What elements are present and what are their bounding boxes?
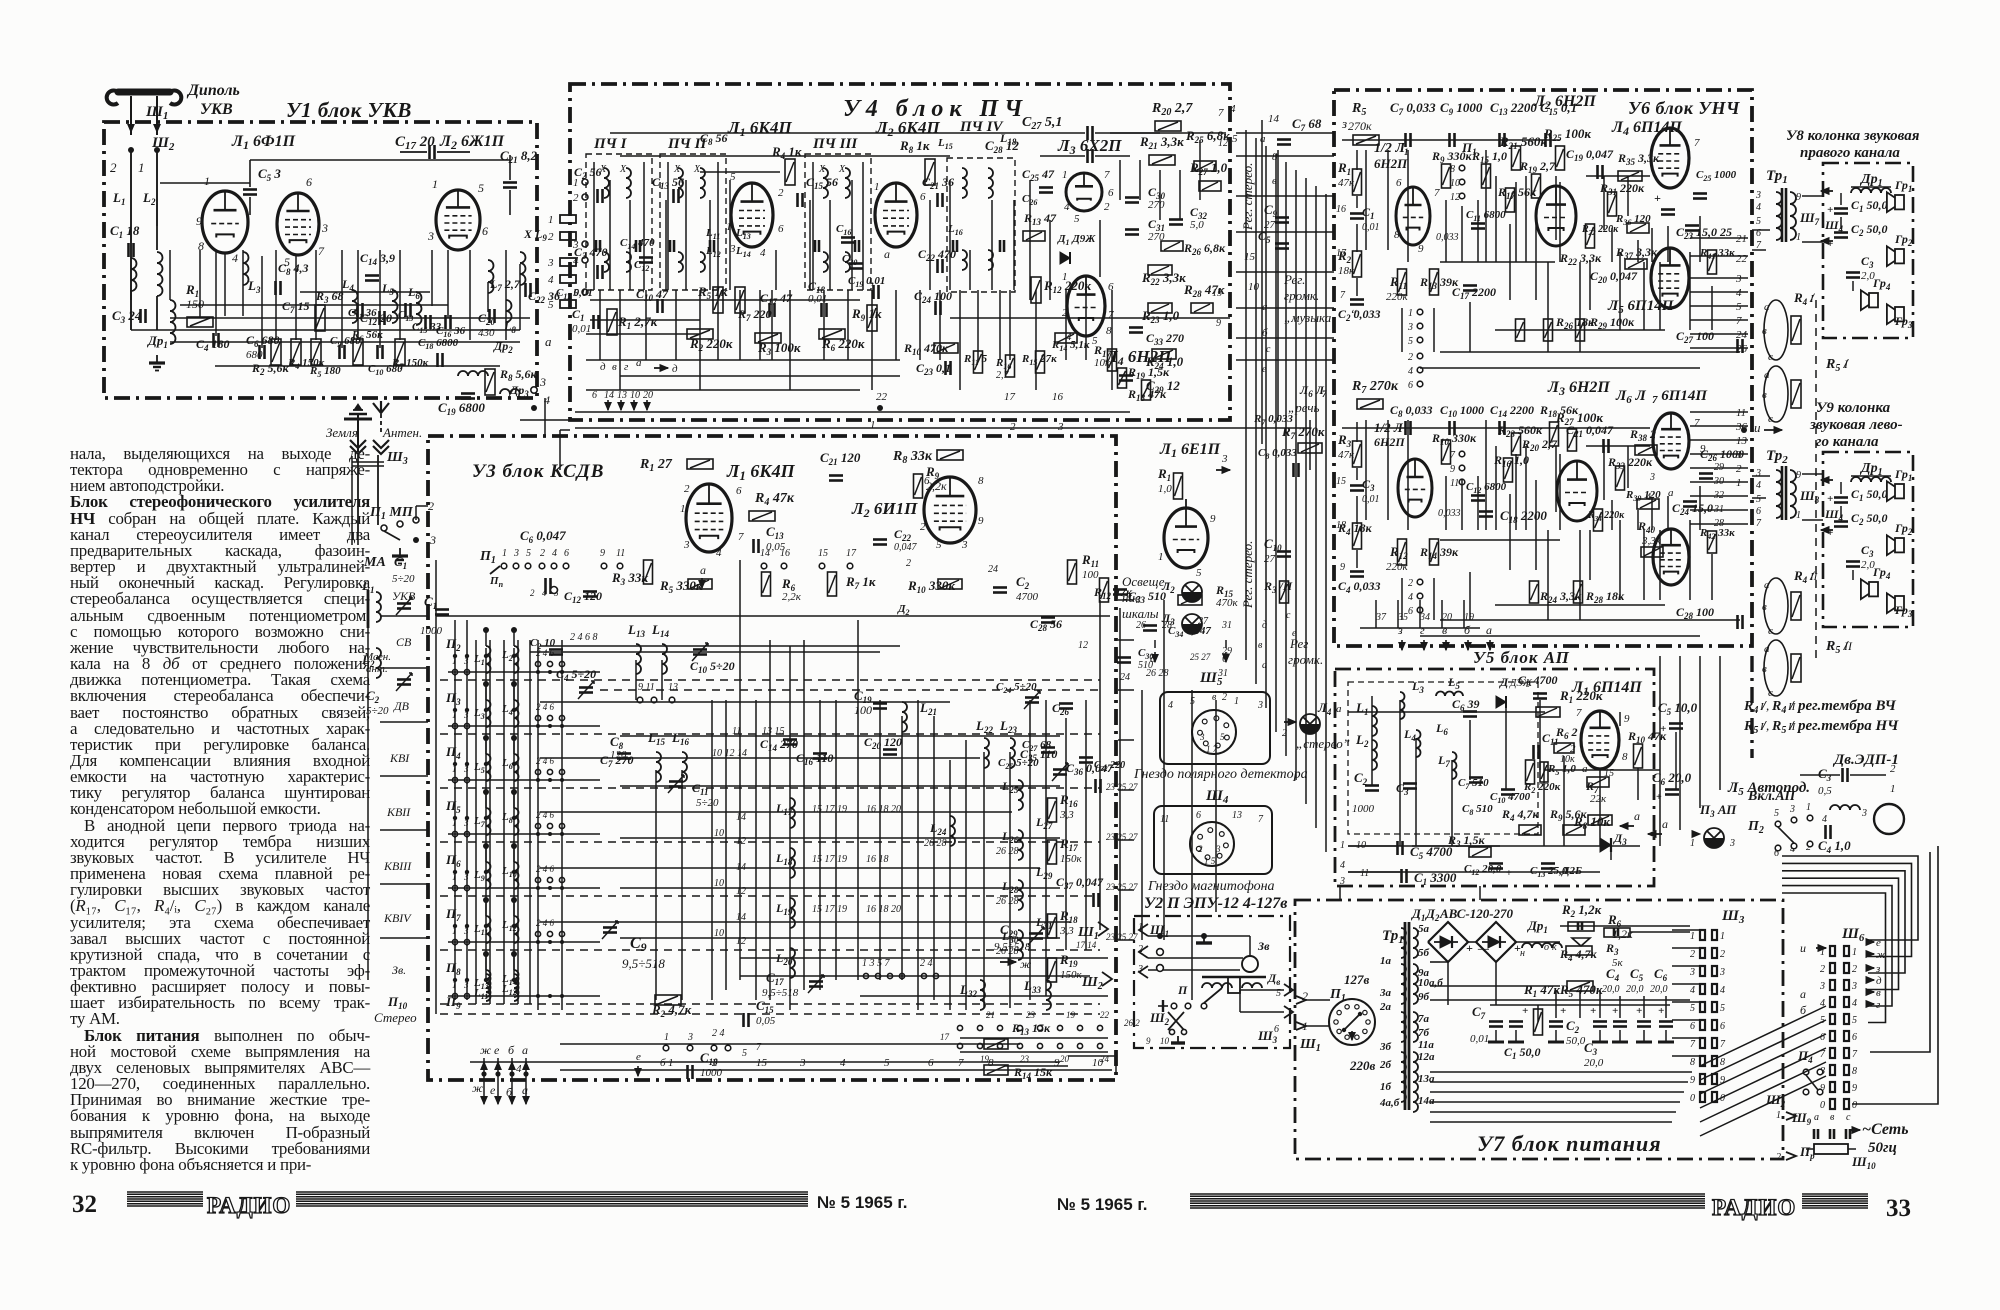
svg-text:0,01: 0,01 [572, 323, 591, 335]
svg-text:220в: 220в [1349, 1058, 1376, 1073]
svg-text:L2: L2 [142, 190, 156, 207]
svg-text:3: 3 [1735, 449, 1742, 461]
svg-text:5: 5 [1756, 216, 1761, 227]
svg-text:Рег. стерео.: Рег. стерео. [1240, 163, 1255, 231]
svg-text:+: + [1654, 191, 1661, 205]
svg-text:С21 36: С21 36 [922, 175, 954, 191]
svg-text:а: а [1582, 763, 1588, 775]
svg-text:24: 24 [988, 564, 998, 575]
svg-text:Тр1: Тр1 [1766, 168, 1788, 186]
svg-text:22: 22 [1100, 1010, 1110, 1020]
svg-text:У5 блок АП: У5 блок АП [1473, 648, 1570, 667]
tube L2 6I1P [924, 477, 976, 543]
svg-text:и: и [1754, 420, 1761, 435]
svg-text:С14 470: С14 470 [620, 237, 655, 251]
svg-text:L33: L33 [1023, 978, 1041, 995]
svg-text:L1: L1 [1355, 700, 1368, 717]
U3 band switch contact verticals [475, 640, 477, 1004]
svg-text:14: 14 [736, 812, 746, 823]
svg-text:П4: П4 [1797, 1048, 1813, 1065]
wire mesh U1 [130, 150, 132, 248]
svg-text:3: 3 [539, 375, 546, 389]
svg-text:е: е [494, 1043, 500, 1057]
svg-text:4: 4 [1340, 860, 1345, 871]
svg-text:С10 4700: С10 4700 [1490, 791, 1531, 805]
svg-text:R28 18к: R28 18к [1585, 589, 1625, 605]
input arrows [1821, 190, 1833, 192]
svg-text:Л3 6Х2П: Л3 6Х2П [1057, 136, 1122, 157]
wire mesh U7 [1430, 961, 1448, 963]
svg-text:1: 1 [1806, 802, 1811, 813]
svg-text:3: 3 [1339, 876, 1345, 887]
svg-text:8: 8 [1450, 164, 1455, 175]
svg-text:Д2Б: Д2Б [1561, 865, 1582, 877]
block U7 power supply border [1295, 900, 1783, 1159]
svg-text:11а: 11а [1418, 1039, 1434, 1051]
svg-text:15: 15 [1212, 288, 1222, 299]
transformer Тр1 windings [1404, 922, 1407, 1110]
svg-text:20,0: 20,0 [1584, 1057, 1604, 1069]
svg-text:R33 220к: R33 220к [1607, 455, 1653, 471]
main vertical trunk bundle mid-right [1245, 130, 1247, 660]
svg-text:С1 50,0: С1 50,0 [1504, 1045, 1541, 1061]
svg-text:2: 2 [1736, 463, 1742, 475]
U3 bottom buses [560, 1069, 1112, 1071]
svg-text:R17: R17 [1059, 836, 1078, 853]
U6 to AP vertical bundle [1679, 656, 1681, 830]
svg-text:0,05: 0,05 [756, 1015, 776, 1027]
svg-text:L16: L16 [671, 730, 689, 747]
svg-text:16: 16 [780, 548, 790, 559]
svg-text:2: 2 [428, 499, 434, 513]
svg-text:б: б [1464, 623, 1471, 637]
svg-text:1000: 1000 [1352, 803, 1375, 815]
svg-text:6: 6 [1820, 1032, 1825, 1043]
svg-text:26: 26 [1736, 343, 1748, 355]
svg-text:в: в [1762, 325, 1767, 337]
svg-text:С25 47: С25 47 [1022, 167, 1055, 183]
svg-text:R1: R1 [1337, 160, 1351, 177]
svg-text:7: 7 [1450, 450, 1456, 461]
U4 extra verticals [609, 180, 611, 290]
svg-text:5б: 5б [1418, 947, 1430, 959]
svg-text:4: 4 [1230, 103, 1236, 115]
bottom levers [1168, 1012, 1184, 1030]
horizontal bundle under U4 [575, 427, 1310, 429]
tube L4 6N2P [1067, 276, 1105, 336]
svg-text:Тр1: Тр1 [1382, 928, 1404, 946]
svg-text:Л2 6И1П: Л2 6И1П [851, 499, 918, 520]
svg-text:шкалы: шкалы [1122, 606, 1159, 621]
svg-text:II: II [1809, 571, 1819, 583]
svg-text:6: 6 [1408, 606, 1413, 617]
svg-text:1: 1 [1340, 840, 1345, 851]
svg-text:23: 23 [1026, 1010, 1036, 1020]
svg-text:11: 11 [1360, 868, 1369, 879]
svg-text:Л3 6Н2П: Л3 6Н2П [1547, 379, 1610, 398]
svg-text:а: а [1764, 369, 1770, 381]
wires top U2 [1148, 935, 1250, 937]
svg-text:4а,б: 4а,б [1379, 1097, 1400, 1109]
connector circles [1157, 949, 1164, 956]
svg-text:С7: С7 [1472, 1004, 1486, 1021]
svg-text:в: в [1876, 987, 1881, 999]
svg-text:R3: R3 [1337, 432, 1352, 449]
svg-text:3: 3 [1789, 804, 1795, 815]
svg-text:2: 2 [1720, 949, 1725, 960]
svg-text:X: X [619, 164, 627, 175]
svg-text:150к: 150к [1060, 853, 1083, 865]
tube V8 pentode Л7 [1653, 529, 1689, 585]
svg-text:к: к [1552, 942, 1557, 953]
svg-text:0: 0 [1690, 1093, 1695, 1104]
svg-text:С19 0,047: С19 0,047 [1566, 147, 1614, 163]
U6 center extra verticals upper [1495, 176, 1497, 262]
svg-text:10: 10 [630, 390, 640, 401]
svg-text:—: — [1477, 943, 1489, 955]
svg-text:4: 4 [552, 548, 557, 559]
svg-text:ДВ: ДВ [393, 699, 410, 713]
svg-text:6: 6 [920, 191, 926, 203]
U6 center extra verticals lower [1495, 446, 1497, 530]
svg-text:а: а [1486, 623, 1492, 637]
svg-text:С7 510: С7 510 [1458, 777, 1489, 791]
svg-text:4: 4 [1168, 700, 1173, 711]
svg-text:L23: L23 [999, 718, 1017, 735]
U6 right border extension [1750, 656, 1753, 758]
wires U6 right to speakers [1752, 229, 1770, 231]
svg-text:Гр1: Гр1 [1894, 178, 1912, 194]
svg-text:2 4: 2 4 [920, 958, 933, 969]
svg-text:о: о [1544, 942, 1549, 953]
svg-text:С3 470: С3 470 [574, 245, 608, 261]
svg-text:1: 1 [204, 174, 210, 188]
svg-text:С2: С2 [1566, 1018, 1580, 1035]
svg-text:а: а [1764, 301, 1770, 313]
svg-text:15: 15 [756, 1057, 768, 1069]
svg-text:10а,б: 10а,б [1418, 977, 1443, 989]
svg-text:3: 3 [1407, 322, 1413, 333]
svg-text:R11: R11 [1081, 552, 1099, 569]
svg-text:3: 3 [1221, 453, 1228, 465]
svg-text:2: 2 [110, 160, 117, 175]
svg-text:С8 4,3: С8 4,3 [278, 261, 309, 277]
U3 inner bottom wires [470, 1061, 1060, 1063]
svg-text:6Н2П: 6Н2П [1374, 156, 1408, 171]
svg-text:0,01: 0,01 [1362, 222, 1380, 233]
svg-text:У9 колонка: У9 колонка [1816, 400, 1891, 416]
svg-text:2: 2 [548, 231, 554, 243]
svg-text:7: 7 [1434, 187, 1440, 199]
svg-text:R21 560к: R21 560к [1499, 134, 1547, 151]
svg-text:22к: 22к [1590, 793, 1607, 805]
svg-text:3: 3 [321, 221, 328, 235]
svg-text:9: 9 [600, 548, 605, 559]
block U8 speaker box [1823, 163, 1913, 338]
svg-text:Зв.: Зв. [392, 963, 406, 977]
svg-text:5: 5 [548, 299, 554, 311]
svg-text:Л1 6Е1П: Л1 6Е1П [1159, 441, 1221, 460]
svg-text:13: 13 [1736, 435, 1748, 447]
svg-text:9: 9 [1146, 1036, 1151, 1046]
svg-text:в: в [1762, 663, 1767, 675]
svg-text:С13: С13 [766, 524, 784, 541]
svg-text:+: + [1466, 941, 1473, 955]
svg-text:У8 колонка звуковая: У8 колонка звуковая [1786, 128, 1920, 144]
svg-text:100: 100 [1082, 569, 1099, 581]
svg-text:С14 3,9: С14 3,9 [360, 251, 395, 267]
svg-text:ПЧ III: ПЧ III [812, 136, 858, 152]
svg-text:6: 6 [928, 1057, 934, 1069]
svg-text:С8 510: С8 510 [1462, 803, 1493, 817]
svg-text:а: а [636, 357, 642, 369]
svg-text:127в: 127в [1344, 972, 1370, 987]
svg-text:е: е [636, 1051, 641, 1063]
svg-text:С27 5,1: С27 5,1 [1022, 115, 1062, 132]
ground symbol Земля [357, 415, 359, 452]
svg-text:Д2: Д2 [897, 603, 910, 617]
svg-text:R6 2: R6 2 [1555, 725, 1578, 741]
svg-text:5: 5 [1074, 213, 1080, 225]
svg-text:С22: С22 [894, 527, 912, 543]
svg-text:2: 2 [920, 521, 926, 533]
svg-text:33: 33 [1886, 1195, 1911, 1222]
svg-text:+: + [1656, 792, 1662, 803]
svg-text:а: а [1800, 987, 1806, 1001]
svg-text:L14: L14 [651, 622, 669, 639]
svg-text:1 5: 1 5 [1204, 856, 1216, 866]
svg-text:9: 9 [978, 515, 984, 527]
svg-text:Ш2: Ш2 [1081, 975, 1103, 992]
svg-text:6: 6 [1274, 1024, 1279, 1035]
svg-text:L5: L5 [1447, 675, 1460, 691]
svg-text:Магн.: Магн. [363, 651, 391, 663]
svg-text:Гр4: Гр4 [1872, 276, 1891, 292]
svg-text:Д1 Д9Ж: Д1 Д9Ж [1057, 233, 1096, 247]
svg-text:6: 6 [1196, 810, 1201, 821]
svg-text:МА: МА [363, 555, 386, 570]
svg-text:“: “ [1330, 397, 1337, 411]
svg-text:16: 16 [1052, 391, 1064, 403]
svg-text:5: 5 [1196, 567, 1202, 579]
svg-text:С5: С5 [1630, 966, 1644, 983]
svg-text:R19: R19 [1059, 952, 1078, 969]
tube L3 6X2P double diode [1066, 173, 1102, 211]
vertical trunk x1310 from U4 to U5 [1309, 420, 1311, 470]
svg-text:„стерео”: „стерео” [1296, 736, 1350, 751]
block U2 record player border [1134, 916, 1290, 1048]
svg-text:1: 1 [1890, 783, 1896, 795]
svg-text:8: 8 [1394, 229, 1400, 241]
svg-text:6: 6 [778, 223, 784, 235]
svg-text:3: 3 [513, 548, 519, 559]
svg-text:Др1: Др1 [1527, 918, 1548, 935]
svg-text:С15 56: С15 56 [806, 175, 838, 191]
svg-text:Ш9: Ш9 [1791, 1110, 1812, 1127]
wire mesh U3 verticals [435, 560, 437, 1014]
svg-text:Л5 6П14П: Л5 6П14П [1607, 298, 1675, 316]
svg-text:3: 3 [1199, 732, 1205, 742]
svg-text:R14 15к: R14 15к [1013, 1065, 1053, 1081]
svg-text:а: а [884, 247, 890, 261]
svg-text:Л2 6К4П: Л2 6К4П [875, 118, 940, 139]
svg-text:2: 2 [712, 1057, 718, 1069]
svg-text:X: X [673, 164, 681, 175]
svg-text:д: д [672, 363, 678, 375]
svg-text:32: 32 [72, 1191, 97, 1218]
svg-text:R10 47к: R10 47к [1627, 729, 1667, 745]
svg-text:1: 1 [668, 1057, 674, 1069]
svg-text:L13: L13 [735, 227, 751, 241]
svg-text:С21 0,047: С21 0,047 [1566, 423, 1614, 439]
svg-text:R5 180: R5 180 [309, 365, 341, 379]
svg-text:6: 6 [1756, 506, 1761, 517]
svg-text:1: 1 [870, 419, 876, 431]
svg-text:5: 5 [936, 539, 942, 551]
svg-text:19: 19 [1066, 1010, 1076, 1020]
svg-text:5,0: 5,0 [1190, 219, 1204, 231]
svg-text:1,0: 1,0 [1158, 483, 1172, 495]
svg-text:С28 56: С28 56 [1030, 617, 1062, 633]
svg-text:1: 1 [874, 181, 880, 193]
svg-text:270к: 270к [1348, 119, 1372, 133]
svg-text:С12: С12 [634, 259, 649, 273]
svg-text:Пп: Пп [489, 575, 504, 589]
svg-text:14: 14 [760, 548, 770, 559]
svg-text:R22 220к: R22 220к [1581, 224, 1619, 237]
svg-text:R5 330к: R5 330к [659, 578, 703, 595]
svg-text:15: 15 [1336, 476, 1346, 487]
svg-text:7: 7 [1690, 1039, 1696, 1050]
svg-text:9,5÷518: 9,5÷518 [994, 941, 1031, 953]
coil autotune [1830, 805, 1840, 810]
svg-text:15 17 19: 15 17 19 [812, 854, 847, 865]
svg-text:С17: С17 [766, 970, 784, 987]
svg-text:“: “ [1350, 306, 1357, 321]
U6 lower-left contact rows [1375, 600, 1377, 628]
svg-text:С13 2200: С13 2200 [1490, 100, 1537, 117]
long connection bus U4 bottom to U3 [560, 429, 570, 431]
svg-text:14а: 14а [1418, 1095, 1435, 1107]
svg-text:1: 1 [1852, 947, 1857, 958]
svg-text:АВС-120-270: АВС-120-270 [1439, 906, 1514, 921]
svg-text:С1 18: С1 18 [110, 223, 140, 240]
svg-text:7: 7 [1852, 1049, 1858, 1060]
bottom mech dashed lines [440, 1013, 1100, 1015]
svg-text:а: а [545, 334, 552, 349]
svg-text:2 4 6: 2 4 6 [536, 702, 555, 712]
svg-text:б: б [1262, 327, 1268, 339]
svg-text:9: 9 [1210, 513, 1216, 525]
svg-text:Диполь: Диполь [186, 82, 240, 99]
svg-text:5÷20: 5÷20 [392, 573, 415, 585]
svg-text:Гр2: Гр2 [1894, 232, 1913, 248]
svg-text:7: 7 [1218, 107, 1224, 119]
svg-text:Др1: Др1 [147, 333, 168, 350]
svg-text:УКВ: УКВ [200, 101, 233, 118]
svg-text:3: 3 [547, 257, 554, 269]
svg-text:9 11: 9 11 [638, 682, 655, 693]
svg-text:2: 2 [1062, 307, 1068, 319]
svg-text:2: 2 [1010, 421, 1016, 433]
wires inside speaker box [1840, 193, 1842, 205]
svg-text:R8 1к: R8 1к [899, 138, 930, 155]
wires Тр1 to У8 box [1802, 195, 1823, 197]
svg-text:50,0: 50,0 [1566, 1035, 1586, 1047]
svg-text:0,01: 0,01 [1470, 1033, 1489, 1045]
svg-text:С6: С6 [1654, 966, 1668, 983]
svg-text:П1: П1 [479, 549, 496, 566]
wire mesh U3 switch stubs [448, 671, 600, 673]
tube V7 pentode Л6 [1653, 413, 1689, 469]
svg-text:П2: П2 [445, 636, 461, 653]
svg-text:громк.: громк. [1284, 288, 1319, 303]
svg-text:6: 6 [736, 485, 742, 497]
svg-text:Антен.: Антен. [382, 425, 422, 440]
svg-text:2: 2 [1408, 352, 1413, 363]
vertical wires connecting U1 bottom to U3 top [544, 398, 546, 436]
ground [156, 355, 158, 363]
svg-text:С18 6800: С18 6800 [418, 337, 459, 351]
svg-text:L8: L8 [501, 811, 513, 825]
svg-text:С17 2200: С17 2200 [1452, 285, 1496, 301]
svg-text:У7 блок питания: У7 блок питания [1477, 1131, 1662, 1156]
svg-text:16 18 20: 16 18 20 [866, 904, 901, 915]
svg-text:120: 120 [610, 749, 627, 761]
tube V2 triode [1536, 186, 1576, 246]
wires Тр2 to У9 box [1802, 473, 1823, 475]
svg-text:а: а [1764, 579, 1770, 591]
svg-text:3: 3 [1729, 838, 1735, 849]
svg-text:д: д [600, 361, 606, 373]
svg-text:3: 3 [799, 1057, 806, 1069]
svg-text:L15: L15 [937, 137, 953, 151]
svg-text:5: 5 [1736, 301, 1742, 313]
svg-text:с: с [1768, 351, 1773, 363]
svg-text:4: 4 [1736, 287, 1742, 299]
svg-text:РАДИО: РАДИО [207, 1193, 291, 1218]
svg-text:6: 6 [1108, 281, 1114, 293]
svg-text:С1 50,0: С1 50,0 [1851, 487, 1888, 503]
svg-text:7: 7 [1340, 290, 1346, 301]
svg-text:0: 0 [1820, 1100, 1825, 1111]
svg-text:8: 8 [1852, 1066, 1857, 1077]
svg-text:ж: ж [472, 1081, 483, 1095]
svg-text:1: 1 [1690, 838, 1695, 849]
svg-text:П10: П10 [387, 994, 408, 1011]
svg-text:С27 100: С27 100 [1676, 329, 1714, 345]
svg-text:L9: L9 [473, 869, 485, 883]
svg-text:7: 7 [738, 531, 744, 543]
svg-text:430: 430 [478, 327, 495, 339]
svg-text:Д: Д [1499, 675, 1509, 689]
svg-text:L6: L6 [501, 757, 513, 771]
svg-text:1: 1 [1776, 1110, 1781, 1121]
svg-text:П2: П2 [1747, 819, 1764, 836]
svg-text:5: 5 [1774, 808, 1779, 819]
svg-text:L5: L5 [381, 281, 394, 297]
svg-text:12а: 12а [1418, 1051, 1435, 1063]
svg-text:Гнездо полярного детектора: Гнездо полярного детектора [1133, 767, 1308, 782]
svg-text:Д3: Д3 [1613, 831, 1627, 847]
mech coupling dashed [1815, 300, 1817, 664]
svg-text:470к: 470к [1216, 597, 1239, 609]
svg-text:2: 2 [530, 588, 535, 598]
svg-text:6: 6 [564, 548, 569, 559]
svg-text:7: 7 [1104, 169, 1110, 181]
svg-text:а: а [1662, 817, 1668, 831]
svg-text:а: а [522, 1083, 528, 1097]
